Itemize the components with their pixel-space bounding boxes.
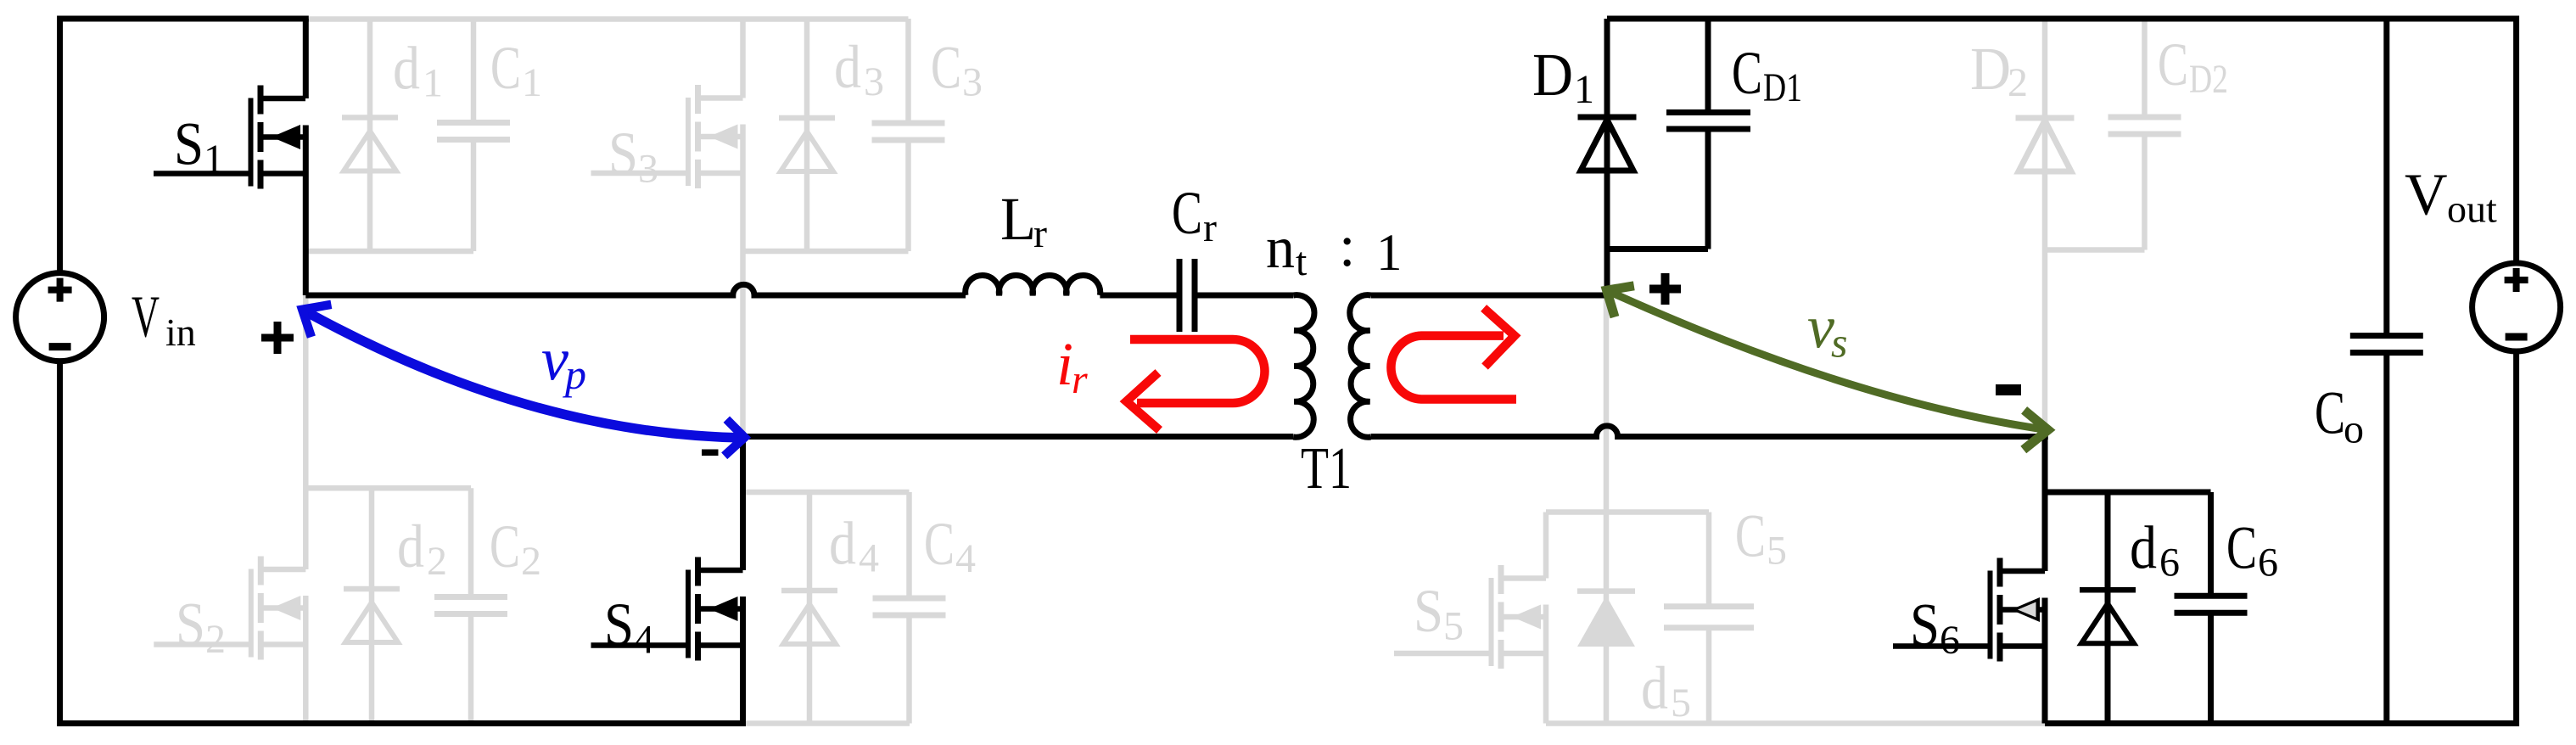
svg-text:L: L <box>1000 185 1036 253</box>
svg-text:5: 5 <box>1671 681 1691 725</box>
svg-text:4: 4 <box>859 536 879 581</box>
svg-text:r: r <box>1072 357 1088 402</box>
svg-text:in: in <box>165 311 196 354</box>
svg-text:3: 3 <box>638 147 658 192</box>
svg-text:C: C <box>931 34 961 102</box>
svg-text:4: 4 <box>634 618 654 663</box>
svg-text:6: 6 <box>2159 541 2180 585</box>
svg-text:4: 4 <box>955 536 976 581</box>
svg-text:r: r <box>1203 205 1217 250</box>
svg-text:6: 6 <box>1940 618 1960 663</box>
svg-text:d: d <box>829 510 856 578</box>
svg-text:1: 1 <box>204 137 224 182</box>
svg-text:S: S <box>174 110 204 178</box>
svg-text:3: 3 <box>864 59 884 104</box>
svg-text:C: C <box>1735 502 1766 570</box>
svg-text:1: 1 <box>1574 67 1594 112</box>
svg-text:1: 1 <box>1376 225 1403 282</box>
svg-text:D: D <box>1970 35 2011 103</box>
svg-text:i: i <box>1056 330 1073 398</box>
svg-text:2: 2 <box>521 539 541 584</box>
svg-text:t: t <box>1296 239 1308 284</box>
svg-text:1: 1 <box>423 61 443 106</box>
svg-text:C: C <box>2315 379 2345 447</box>
svg-text:d: d <box>393 35 420 103</box>
svg-text:C: C <box>1732 39 1762 107</box>
svg-text:C: C <box>1172 179 1202 247</box>
svg-text:2: 2 <box>205 617 226 662</box>
svg-text:D2: D2 <box>2189 57 2228 102</box>
svg-text:p: p <box>563 350 586 398</box>
svg-text:C: C <box>924 510 955 578</box>
svg-text:T1: T1 <box>1301 436 1352 501</box>
svg-text:d: d <box>1641 654 1668 722</box>
svg-text:S: S <box>604 591 634 658</box>
svg-text:S: S <box>1910 591 1940 659</box>
svg-text:D1: D1 <box>1763 65 1802 110</box>
svg-text:2: 2 <box>2008 60 2028 105</box>
svg-text:n: n <box>1266 216 1295 281</box>
svg-text:o: o <box>2344 407 2364 452</box>
svg-text:d: d <box>834 33 861 101</box>
svg-text:6: 6 <box>2258 540 2278 585</box>
svg-text:5: 5 <box>1443 604 1464 649</box>
svg-text:S: S <box>1414 577 1443 645</box>
svg-text:d: d <box>397 513 424 580</box>
svg-text:C: C <box>490 34 521 102</box>
svg-text::: : <box>1339 214 1355 279</box>
svg-text:s: s <box>1831 319 1847 367</box>
svg-text:V: V <box>132 285 160 350</box>
svg-text:S: S <box>608 120 638 188</box>
svg-text:C: C <box>2158 31 2188 98</box>
svg-text:C: C <box>490 513 520 580</box>
svg-text:r: r <box>1033 211 1047 256</box>
svg-text:C: C <box>2226 513 2257 581</box>
svg-text:2: 2 <box>427 539 447 584</box>
svg-text:5: 5 <box>1767 529 1787 574</box>
svg-text:d: d <box>2130 513 2157 581</box>
svg-text:1: 1 <box>522 60 542 105</box>
svg-text:D: D <box>1532 41 1573 109</box>
svg-text:3: 3 <box>962 60 983 105</box>
svg-text:out: out <box>2447 188 2497 231</box>
svg-text:V: V <box>2405 162 2448 227</box>
svg-text:S: S <box>176 591 205 658</box>
